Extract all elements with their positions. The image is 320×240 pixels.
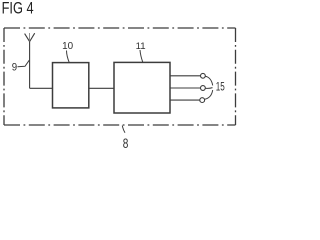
- brace leader to label 15: [205, 76, 213, 99]
- svg-text:15: 15: [216, 80, 225, 94]
- dash-dot enclosure border (net 8): [4, 28, 236, 125]
- wire output 2: [170, 87, 201, 89]
- terminal circle 1: [201, 73, 206, 78]
- leader line for 9: [18, 60, 30, 67]
- wire output 3: [170, 99, 200, 101]
- svg-text:9: 9: [12, 62, 17, 74]
- block 11: [114, 62, 170, 113]
- leader line for 8: [122, 126, 125, 133]
- terminal circle 3: [200, 98, 205, 103]
- antenna symbol: [25, 33, 35, 88]
- wire block 10 to block 11: [89, 87, 114, 89]
- svg-text:11: 11: [136, 41, 146, 52]
- leader line for 11: [140, 50, 143, 62]
- wire output 1: [170, 75, 201, 77]
- svg-text:FIG 4: FIG 4: [2, 0, 34, 18]
- svg-text:8: 8: [123, 136, 129, 151]
- block 10: [53, 63, 89, 108]
- leader line for 10: [67, 51, 70, 63]
- svg-text:10: 10: [62, 41, 74, 52]
- wire antenna to block 10: [30, 87, 53, 89]
- terminal circle 2: [201, 86, 206, 91]
